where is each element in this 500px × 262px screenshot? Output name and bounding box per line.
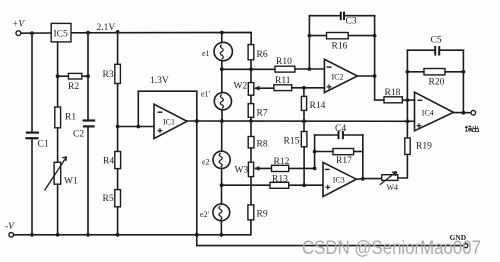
capacitor C4 [339, 131, 343, 139]
svg-text:C4: C4 [335, 124, 346, 134]
wire C3 top left segment [309, 15, 340, 17]
svg-text:R10: R10 [276, 57, 292, 67]
resistor R7 [248, 104, 254, 118]
op-amp IC3 [323, 162, 356, 196]
wire IC5 bottom pin [57, 42, 59, 76]
svg-text:1.3V: 1.3V [150, 76, 169, 86]
wire R8 to W3 [250, 148, 252, 162]
wire W1 bottom lead [57, 184, 59, 235]
wire R2 left lead [58, 75, 69, 77]
svg-text:e2′: e2′ [200, 210, 210, 219]
terminal GND [464, 244, 468, 248]
resistor R15 [301, 132, 307, 147]
capacitor C1 [25, 133, 39, 139]
wire R17 left lead [315, 151, 333, 153]
resistor R17 [333, 149, 354, 155]
svg-text:R3: R3 [103, 70, 114, 80]
wire R10 to IC2 minus [295, 68, 325, 70]
wire C2 branch upper [87, 33, 89, 120]
wire e2 prime bottom lead [220, 221, 222, 235]
wire R1 to W1 [57, 128, 59, 163]
wire R17 right lead [354, 151, 363, 153]
op-amp IC4 [415, 92, 454, 131]
svg-text:+V: +V [12, 20, 25, 30]
W4 wiper arrow [380, 172, 397, 185]
resistor R2 [68, 73, 81, 79]
resistor R4 [115, 152, 121, 169]
wire bridge node A horizontal [222, 68, 275, 70]
wire node C to R13 [222, 184, 270, 186]
wire R14 top lead [303, 88, 305, 97]
wire R15 down to R13 wire crossing R12 wire [303, 147, 305, 185]
wire R14 bottom lead [303, 110, 305, 121]
svg-text:R12: R12 [274, 157, 290, 167]
op-amp IC1 [154, 104, 187, 138]
svg-text:R6: R6 [257, 50, 268, 60]
wire e2 top lead [221, 121, 223, 151]
wire R20 right lead [445, 71, 463, 73]
resistor R16 [327, 33, 349, 39]
wire C3 top right segment [344, 15, 374, 17]
svg-text:C3: C3 [346, 17, 357, 27]
svg-text:R2: R2 [68, 82, 79, 92]
resistor R8 [248, 137, 254, 148]
wire e2 prime top lead [221, 185, 223, 204]
wire R11 to IC2 plus [292, 87, 325, 89]
resistor R14 [301, 96, 306, 110]
svg-text:IC4: IC4 [422, 109, 434, 118]
potentiometer W1 [54, 162, 61, 184]
svg-text:W3: W3 [235, 166, 249, 176]
svg-text:R17: R17 [336, 156, 352, 166]
wire e1 prime bottom lead [221, 110, 223, 121]
wire IC3 output to W4 [356, 178, 381, 181]
resistor R19 [405, 138, 410, 154]
label output chinese glyphs [465, 126, 479, 132]
sensor element e1 [214, 42, 232, 60]
resistor R5 [115, 190, 121, 207]
wire R16 right lead [348, 35, 374, 37]
terminal output [471, 110, 476, 115]
junction dots [30, 31, 34, 35]
wire R16 left lead [309, 35, 326, 37]
svg-text:R18: R18 [385, 88, 401, 98]
svg-text:R15: R15 [284, 137, 300, 147]
wire R3 top lead [117, 32, 119, 64]
svg-text:C5: C5 [431, 36, 442, 46]
svg-text:C1: C1 [38, 140, 49, 150]
svg-text:-V: -V [5, 222, 15, 232]
wire R13 to IC3 plus [289, 184, 323, 186]
wire top rail left of IC5 [21, 32, 52, 34]
op-amp IC2 [324, 59, 357, 92]
resistor R13 [270, 182, 289, 188]
W3 wiper arrow [255, 167, 262, 171]
wire C5 right segment [440, 49, 464, 51]
capacitor C2 [83, 121, 96, 127]
svg-text:W4: W4 [387, 183, 399, 192]
svg-text:IC5: IC5 [54, 30, 69, 40]
wire R12 to IC3 minus [289, 167, 315, 169]
resistor R11 [274, 85, 292, 91]
svg-text:IC2: IC2 [332, 73, 344, 82]
svg-text:e1: e1 [202, 49, 210, 58]
svg-text:C2: C2 [73, 130, 84, 140]
wire R7 to bus [250, 117, 252, 121]
potentiometer W2 [248, 83, 254, 96]
potentiometer W4 [382, 175, 398, 181]
wire node A to W2 [250, 69, 252, 82]
wire R19 top to bus [406, 121, 408, 138]
resistor R20 [424, 69, 445, 75]
wire R1 top lead [57, 76, 59, 107]
capacitor C3 [341, 12, 344, 20]
svg-text:e1′: e1′ [201, 90, 211, 99]
svg-text:R19: R19 [416, 142, 432, 152]
terminal -V [9, 233, 14, 238]
resistor R18 [384, 97, 402, 103]
svg-text:e2: e2 [202, 158, 210, 167]
wire W2 wiper to R11 [256, 87, 274, 89]
potentiometer W3 [248, 162, 253, 176]
wire IC2 output [357, 75, 374, 77]
wire C4 left segment [315, 134, 338, 136]
wire W4 to R19 bottom [398, 154, 408, 178]
resistor R12 [272, 165, 289, 171]
wire C4 right segment [344, 134, 363, 136]
wire left rail x=32 lower [31, 139, 33, 235]
wire e1 prime top lead [221, 69, 223, 93]
wire left rail x=32 upper [31, 33, 33, 132]
IC5 regulator box [51, 23, 71, 42]
svg-text:R8: R8 [257, 140, 268, 150]
svg-text:R1: R1 [65, 113, 76, 123]
wire divider to IC1 plus input [118, 126, 154, 128]
wire R2 right lead [82, 75, 88, 77]
wire e1 to node [221, 61, 223, 70]
wire R5 bottom lead [117, 207, 119, 235]
svg-text:IC1: IC1 [163, 118, 175, 127]
wire IC3 feedback right vertical [362, 135, 364, 179]
wire reference bus IC1 output to IC4 plus [187, 120, 415, 122]
svg-text:R13: R13 [272, 175, 288, 185]
wire IC4 output [454, 112, 472, 114]
svg-text:IC3: IC3 [333, 176, 345, 185]
resistor R6 [248, 45, 254, 60]
wire R3 to R4 [117, 84, 119, 152]
wire e1 top lead [221, 33, 223, 43]
wire W3 to R9 crossing [250, 177, 252, 205]
wire GND line [197, 245, 464, 247]
svg-text:CSDN @SeniorMao007: CSDN @SeniorMao007 [302, 238, 481, 259]
wire IC2 feedback left vertical [308, 16, 310, 69]
terminal +V [16, 31, 21, 36]
svg-text:R9: R9 [257, 210, 268, 220]
wire R6 to node A [250, 60, 252, 70]
resistor R3 [115, 64, 121, 83]
wire R4 to R5 [117, 169, 119, 190]
sensor element e2 [213, 151, 230, 168]
svg-text:R7: R7 [257, 109, 268, 119]
wire bottom rail [13, 220, 251, 235]
wire C5 R20 right vertical [462, 50, 464, 112]
sensor element e1 prime [214, 93, 231, 110]
wire C5 left segment [407, 49, 435, 51]
wire R15 top lead [303, 121, 305, 131]
wire C5 R20 left vertical [406, 50, 408, 121]
sensor element e2 prime [213, 204, 230, 221]
wire W3 wiper to R12 [256, 167, 272, 169]
svg-text:R16: R16 [332, 42, 348, 52]
wire e2 bottom lead [221, 168, 223, 185]
W2 wiper arrow [255, 86, 262, 90]
wire R18 to IC4 minus [402, 99, 414, 101]
svg-text:R11: R11 [275, 76, 291, 86]
wire R20 left lead [407, 71, 424, 73]
resistor R9 [248, 205, 254, 220]
svg-text:R5: R5 [103, 194, 114, 204]
wire IC2 feedback right vertical down to R18 [375, 16, 384, 100]
svg-text:R14: R14 [310, 101, 326, 111]
resistor R1 [55, 107, 61, 128]
wire bus to R8 [250, 121, 252, 137]
wire IC3 feedback left vertical [314, 135, 316, 168]
svg-text:2.1V: 2.1V [97, 23, 116, 33]
svg-text:W2: W2 [234, 82, 248, 92]
svg-text:R4: R4 [103, 157, 114, 167]
wire C2 branch lower [87, 127, 89, 235]
W1 wiper arrow [45, 157, 67, 191]
wire top rail right of IC5 to R6 top corner [71, 32, 251, 44]
wire W2 to R7 [250, 95, 252, 103]
resistor R10 [275, 66, 295, 72]
svg-text:R20: R20 [429, 78, 445, 88]
capacitor C5 [435, 46, 439, 56]
wire IC1 feedback loop and down to GND line [138, 91, 197, 245]
svg-text:W1: W1 [64, 177, 78, 187]
